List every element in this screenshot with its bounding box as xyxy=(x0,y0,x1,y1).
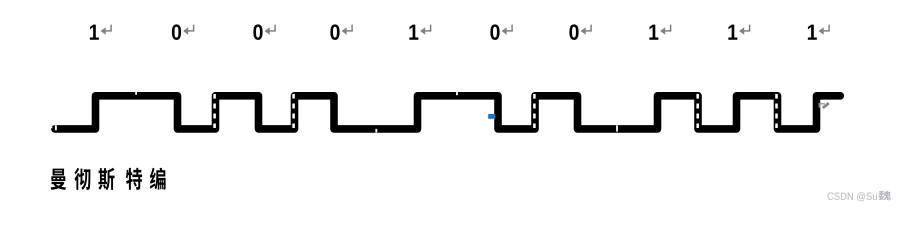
title char 特 xyxy=(126,168,142,190)
return mark after digit 1 xyxy=(739,25,750,35)
bit digit 1 xyxy=(409,25,418,40)
gray line-break mark at waveform end xyxy=(819,103,828,108)
bit digit 0 xyxy=(253,24,262,40)
bit digit 1 xyxy=(90,25,99,40)
cell boundary notch at x=455 (high bar, top) xyxy=(456,92,458,95)
bit digit 0 xyxy=(569,24,578,40)
cell boundary notch at x=55 (low bar, from top) xyxy=(55,125,57,130)
blue selection handle xyxy=(488,114,495,119)
bit digit 1 xyxy=(728,25,737,40)
return mark after digit 1 xyxy=(660,25,671,35)
bit digit 0 xyxy=(172,24,181,40)
bit digit 0 xyxy=(490,24,499,40)
watermark text CSDN @Su xyxy=(827,192,833,199)
bit digit 1 xyxy=(808,25,817,40)
title char 彻 xyxy=(74,168,90,190)
title char 曼 xyxy=(51,169,67,190)
cell boundary notch at x=135 (high bar, top) xyxy=(135,92,137,95)
return mark after digit 0 xyxy=(342,25,353,35)
white dashed cell boundary on edge x=776.5 xyxy=(775,94,778,99)
white dashed cell boundary on edge x=214.6 xyxy=(213,94,216,99)
white dashed cell boundary on edge x=697.7 xyxy=(696,94,699,99)
return mark after digit 0 xyxy=(183,25,194,35)
white dot artifact in start cap xyxy=(51,127,52,128)
watermark char 魏 xyxy=(878,191,890,201)
return mark after digit 1 xyxy=(819,25,830,35)
bit digit 1 xyxy=(649,25,658,40)
white dashed cell boundary on edge x=293.6 xyxy=(292,94,295,99)
return mark after digit 0 xyxy=(265,25,276,35)
title char 编 xyxy=(150,168,166,190)
return mark after digit 1 xyxy=(101,25,112,35)
cell boundary notch at x=615 (low bar, tall) xyxy=(616,125,618,131)
return mark after digit 0 xyxy=(581,25,592,35)
title char 斯 xyxy=(98,168,114,191)
bit digit 0 xyxy=(330,24,339,40)
Manchester waveform trace xyxy=(55,96,840,129)
return mark after digit 1 xyxy=(420,25,431,35)
cell boundary notch at x=375 (low bar, bottom) xyxy=(375,129,377,133)
white dashed cell boundary on edge x=534.4 xyxy=(533,94,536,99)
return mark after digit 0 xyxy=(502,25,513,35)
